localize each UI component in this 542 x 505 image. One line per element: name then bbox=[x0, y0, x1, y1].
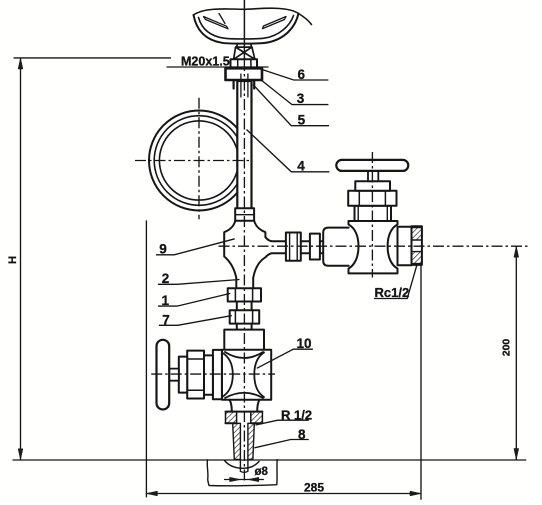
gauge vertical centerline (solid object line) bbox=[243, 0, 245, 59]
svg-text:ø8: ø8 bbox=[255, 466, 269, 478]
svg-text:M20x1.5: M20x1.5 bbox=[181, 55, 230, 69]
lower valve outlet trumpet bbox=[230, 400, 260, 412]
lower valve upper tube bbox=[224, 330, 264, 355]
label R1/2 leader bbox=[256, 420, 309, 425]
dia8 right arrow bbox=[248, 477, 259, 481]
M20x1.5 leader underline bbox=[167, 66, 269, 68]
nipple 5 (inner bore lines) bbox=[241, 74, 248, 97]
lower valve horizontal centerline bbox=[151, 373, 275, 375]
short pipe into right valve bbox=[320, 241, 323, 253]
200 bottom arrow bbox=[514, 449, 519, 460]
lower valve stem bbox=[169, 369, 179, 381]
mounting plate (broken-out wall section) bbox=[207, 460, 277, 486]
siphon loop coil (part 4 tube) bbox=[149, 111, 249, 211]
union nut on tee branch bbox=[286, 233, 301, 261]
right valve vertical centerline bbox=[371, 152, 373, 278]
label 1 leader bbox=[158, 293, 230, 306]
main vertical centerline (dash-dot) bbox=[243, 60, 245, 483]
svg-text:6: 6 bbox=[298, 67, 306, 82]
nipple into lower valve bbox=[237, 324, 252, 330]
vertical pipe (part 4) bbox=[237, 81, 251, 209]
285 extension line right bbox=[420, 265, 422, 500]
label 4 leader bbox=[247, 130, 330, 172]
H bottom arrow bbox=[18, 449, 23, 460]
H dimension extension line (top) bbox=[14, 57, 172, 59]
R1/2 threaded flange (hatched) bbox=[226, 412, 263, 424]
label 6 leader bbox=[259, 69, 328, 81]
200 top arrow bbox=[514, 246, 519, 257]
branch nipple between unions bbox=[301, 241, 310, 253]
label 9 leader bbox=[156, 239, 235, 255]
hex nut 6 (M20x1.5) bbox=[231, 59, 258, 68]
label Rc1/2 leader bbox=[374, 265, 417, 298]
H top arrow bbox=[18, 58, 23, 69]
siphon loop vertical centerline bbox=[198, 98, 200, 219]
bottom reference line bbox=[13, 459, 527, 461]
right valve T-handle bbox=[336, 160, 408, 171]
lower valve packing gland bbox=[179, 357, 187, 393]
label 2 leader bbox=[158, 280, 240, 285]
right valve stem bbox=[368, 171, 378, 181]
svg-text:10: 10 bbox=[296, 336, 311, 351]
svg-text:285: 285 bbox=[304, 480, 324, 494]
svg-text:7: 7 bbox=[162, 312, 170, 327]
dia8 left arrow bbox=[230, 477, 241, 481]
label 10 leader bbox=[257, 349, 313, 368]
dimension H line bbox=[20, 58, 22, 460]
gauge case bottom (pressure gauge, top of drawing) bbox=[194, 8, 312, 43]
diameter 8 dimension line bbox=[224, 479, 264, 481]
right valve inlet tube bbox=[323, 228, 348, 266]
svg-text:9: 9 bbox=[159, 242, 167, 257]
pipe union collar at pipe bottom bbox=[235, 208, 254, 221]
svg-text:4: 4 bbox=[297, 158, 305, 173]
285 extension line left bbox=[145, 220, 147, 497]
svg-text:R 1/2: R 1/2 bbox=[281, 407, 312, 422]
label 7 leader bbox=[159, 316, 232, 326]
connector flange 3 bbox=[226, 68, 263, 88]
svg-text:H: H bbox=[7, 256, 19, 264]
dimension 200 line bbox=[515, 246, 517, 459]
right valve outlet threaded box Rc1/2 bbox=[412, 226, 422, 265]
hex coupling 7 bbox=[230, 310, 260, 323]
right valve hex nut bbox=[348, 191, 396, 206]
label 3 leader bbox=[261, 80, 329, 105]
lower valve handwheel (edge view) bbox=[157, 340, 170, 410]
svg-text:3: 3 bbox=[297, 91, 305, 106]
siphon loop horizontal centerline bbox=[135, 160, 251, 162]
svg-text:200: 200 bbox=[501, 339, 513, 357]
svg-text:1: 1 bbox=[162, 293, 170, 308]
right valve packing gland bbox=[355, 181, 390, 191]
label 5 leader bbox=[253, 85, 329, 126]
lower valve mid block bbox=[204, 355, 213, 394]
285 left arrow bbox=[146, 491, 157, 496]
right valve outlet tube bbox=[398, 227, 412, 265]
lower valve bonnet wide block bbox=[213, 350, 222, 399]
label 8 leader bbox=[255, 440, 309, 448]
svg-text:5: 5 bbox=[298, 112, 306, 127]
tapered tube 8 walls (hatched) bbox=[233, 423, 255, 472]
svg-text:Rc1/2: Rc1/2 bbox=[375, 285, 410, 300]
branch horizontal centerline bbox=[219, 245, 528, 247]
lower valve body 10 bbox=[222, 350, 271, 400]
right valve central body block bbox=[349, 221, 398, 273]
gauge stem bracket with X brace bbox=[234, 44, 255, 60]
right valve bonnet neck bbox=[355, 206, 392, 221]
285 right arrow bbox=[410, 491, 421, 496]
nipple between couplings bbox=[237, 302, 252, 311]
svg-text:8: 8 bbox=[298, 427, 306, 442]
dimension 285 line bbox=[146, 493, 421, 495]
tee body 9 bbox=[224, 221, 286, 288]
small hex on branch bbox=[310, 234, 320, 260]
lower valve hex nut bbox=[187, 351, 204, 399]
svg-text:2: 2 bbox=[162, 271, 170, 286]
hex coupling 1 bbox=[228, 288, 261, 301]
